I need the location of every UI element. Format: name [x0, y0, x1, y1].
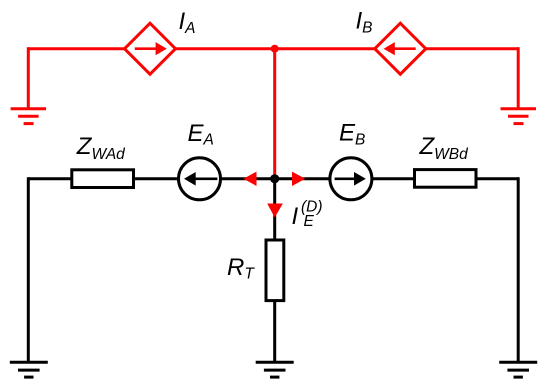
label I_A	[179, 8, 196, 37]
label Z_WAd	[76, 133, 126, 163]
ground (black, bottom-left)	[10, 362, 48, 377]
ground (red, top-right)	[501, 109, 537, 124]
wire: top-left red vertical	[27, 47, 30, 108]
label I_E^(D)	[292, 199, 323, 231]
resistor R_T	[266, 240, 284, 301]
label Z_WBd	[419, 133, 470, 163]
wire: center red vertical	[273, 49, 276, 179]
wire: main black horizontal	[28, 177, 518, 180]
wire: top-right red vertical	[517, 47, 520, 108]
node A (black junction dot)	[270, 174, 279, 183]
label R_T	[227, 254, 255, 283]
current source I_B (diamond, arrow left)	[375, 23, 426, 74]
current arrow I_E (red, pointing down)	[267, 204, 283, 218]
wire: center black vertical	[273, 179, 276, 362]
current source I_A (diamond, arrow right)	[125, 23, 176, 74]
resistor Z_WAd	[72, 170, 134, 188]
label I_B	[356, 8, 373, 37]
label E_B	[339, 120, 365, 149]
resistor Z_WBd	[415, 170, 477, 188]
ground (black, bottom-center)	[256, 362, 294, 377]
wire: top red horizontal net	[28, 47, 518, 50]
junction node (red)	[271, 45, 279, 53]
current arrow (red, pointing right out of node)	[292, 172, 305, 186]
ground (black, bottom-right)	[499, 362, 537, 377]
ground (red, top-left)	[11, 109, 47, 124]
svg-text:I: I	[292, 203, 299, 230]
source E_B (circle, arrow right)	[330, 158, 372, 200]
source E_A (circle, arrow left)	[179, 158, 221, 200]
wire: right black vertical	[517, 177, 520, 362]
current arrow (red, pointing left into node)	[244, 172, 257, 186]
svg-text:E: E	[304, 213, 315, 230]
label E_A	[188, 120, 214, 149]
wire: left black vertical	[27, 177, 30, 362]
